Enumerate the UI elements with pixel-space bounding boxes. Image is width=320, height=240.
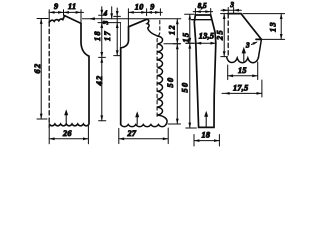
extension line y18.8 long — [83, 18, 181, 20]
dim 25 line — [223, 14, 225, 57]
arrows 12-50 — [176, 19, 179, 124]
svg-text:3: 3 — [245, 41, 250, 49]
armhole extension line — [120, 23, 122, 47]
piece 3 grain arrow — [205, 113, 207, 127]
svg-text:25: 25 — [215, 29, 224, 41]
dim line 3 short — [111, 7, 113, 19]
dim 62 arrows — [40, 19, 43, 120]
dim 62 ticks — [37, 19, 48, 120]
ticks on 4-18-42 — [99, 57, 106, 120]
svg-text:8,5: 8,5 — [198, 2, 207, 10]
extension y43.8 — [164, 43, 181, 45]
svg-text:17,5: 17,5 — [233, 84, 249, 93]
dim 15-50 line B — [189, 14, 191, 128]
dim 15 extensions — [228, 62, 258, 80]
dim 10-9 arrows — [128, 11, 160, 14]
dim 9-11 arrows — [49, 11, 81, 14]
dim 18 arrows — [194, 139, 219, 142]
piece 2 scalloped right edge — [157, 36, 167, 124]
dim 18 line — [194, 140, 219, 142]
svg-text:10: 10 — [135, 3, 144, 12]
piece 4 grain arrow — [243, 50, 245, 62]
dim 13 extensions — [243, 14, 285, 40]
dim 17,5 line — [222, 92, 262, 94]
dim line 17 — [116, 8, 118, 56]
piece 4 right edge — [258, 39, 261, 57]
dim 25 arrows — [223, 14, 226, 57]
dim 62 line — [40, 19, 42, 120]
dim 26 arrows — [49, 137, 88, 140]
svg-text:42: 42 — [95, 75, 104, 87]
dim 18 extension lines — [194, 135, 219, 147]
piece 4 dart bottom edge — [256, 38, 261, 40]
extension y124 — [168, 123, 180, 125]
piece 1 fold line (dashed) — [48, 22, 50, 128]
dim 8,5 ticks — [195, 9, 210, 17]
svg-text:27: 27 — [127, 129, 137, 138]
dim 26 extension lines — [49, 126, 88, 144]
piece 1 grain arrow — [65, 112, 67, 125]
piece 3 outline — [194, 15, 216, 127]
svg-text:3: 3 — [102, 20, 110, 25]
svg-text:17: 17 — [103, 30, 112, 41]
svg-text:62: 62 — [33, 63, 42, 74]
svg-text:3: 3 — [229, 1, 234, 9]
dim 3 top line — [221, 8, 241, 14]
svg-text:15: 15 — [238, 66, 247, 75]
arrows 17 — [116, 11, 119, 56]
dim 27 line — [119, 138, 168, 140]
dim 15 line — [228, 75, 258, 77]
piece 4 fold line dashed — [227, 14, 229, 58]
svg-text:18: 18 — [93, 30, 102, 41]
dim 15 arrows — [228, 74, 258, 77]
svg-text:9: 9 — [54, 2, 58, 11]
svg-text:50: 50 — [181, 82, 190, 93]
dim 3 arrows — [223, 9, 239, 12]
dim 13 arrows — [280, 14, 283, 40]
piece 2 grain arrow — [136, 114, 138, 125]
piece 3 fold line — [192, 19, 211, 21]
piece 2 shoulder seam — [129, 19, 147, 27]
dim 13 line — [280, 14, 282, 40]
piece 2 neck scallop top — [147, 19, 158, 36]
svg-text:15: 15 — [181, 32, 190, 43]
piece 4 bottom wavy edge — [227, 57, 259, 62]
piece 4 top edge — [228, 14, 261, 40]
extension line y22.6 — [98, 22, 121, 24]
dim 9-11 line — [49, 11, 84, 13]
piece 2 outline left/shoulder — [121, 27, 129, 125]
dim 25 ticks — [221, 14, 228, 57]
piece 1 outline — [49, 16, 89, 124]
dim 12-50 line — [176, 19, 178, 124]
svg-text:13: 13 — [268, 21, 277, 32]
piece 2 bottom wavy edge — [121, 125, 166, 127]
dim 26 line — [49, 138, 88, 140]
ticks 17 — [114, 16, 121, 55]
svg-text:26: 26 — [62, 129, 72, 138]
svg-text:13,5: 13,5 — [199, 32, 215, 41]
svg-text:12: 12 — [167, 24, 176, 35]
dim 27 extension lines — [119, 128, 168, 144]
dim 8,5 line — [193, 11, 212, 13]
piece 2 dashed stitch line — [157, 21, 160, 120]
dim 9-11 ticks — [49, 10, 81, 23]
leader 3 — [252, 42, 257, 44]
svg-text:11: 11 — [68, 2, 76, 11]
dim 8,5 arrows — [195, 10, 210, 13]
arrows on 4-18-42 — [100, 10, 103, 121]
dim 17,5 arrows — [224, 92, 262, 95]
extension line y15 — [99, 14, 105, 16]
svg-text:9: 9 — [150, 3, 154, 12]
ticks 12-50 — [173, 44, 181, 124]
dim 13,5 line — [186, 42, 216, 44]
dim line 4-18-42 — [101, 7, 103, 121]
piece 1 bottom wavy edge — [49, 124, 89, 126]
dim 27 arrows — [119, 137, 168, 140]
dim 10-9 ticks — [128, 9, 160, 27]
svg-text:18: 18 — [202, 130, 211, 139]
ticks line B — [185, 14, 197, 128]
dim 10-9 line — [128, 11, 162, 13]
arrows line B — [188, 14, 191, 128]
svg-text:50: 50 — [166, 77, 175, 88]
small left arrow on y18.8 — [89, 17, 95, 20]
svg-text:4: 4 — [103, 10, 108, 18]
dim 17,5 extension — [261, 80, 263, 97]
dim 13,5 arrows — [196, 42, 216, 45]
